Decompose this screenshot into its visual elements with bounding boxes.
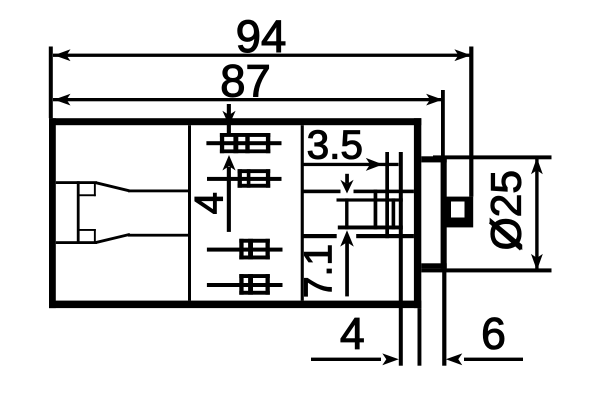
flange bottom edge [421, 263, 446, 268]
pin body [445, 197, 474, 228]
dim dia25 top arrow [531, 158, 543, 175]
body outline right edge [414, 118, 421, 308]
dim 87 right extension line [441, 90, 445, 156]
right detail vertical VA [385, 152, 389, 238]
flange top edge [421, 156, 446, 162]
dim 4 vertical upper tail [227, 104, 231, 133]
dim 94 line [53, 54, 471, 57]
right detail H-bot [338, 226, 403, 230]
label 94 [238, 20, 259, 52]
dim 94 left extension line [49, 47, 53, 119]
label 87 [222, 65, 243, 97]
bottom extension line at body right edge [418, 308, 422, 366]
body outline left edge [49, 118, 56, 308]
label dia25 rotated [490, 219, 522, 249]
dim 7.1 up arrow halo [337, 234, 356, 239]
dim 3.5 arrow [366, 158, 383, 171]
dim 7.1 down arrow head [340, 180, 353, 194]
fork notch top bottom edge [78, 194, 96, 196]
terminal row 4 box [239, 274, 269, 295]
terminal row 1 box [220, 133, 270, 153]
flange right edge [441, 156, 447, 268]
dim dia25 bottom extension line [421, 268, 551, 272]
right detail H-top right segment [353, 190, 414, 194]
right detail I-beam vertical [345, 198, 348, 229]
dim 87 right arrow [426, 94, 443, 106]
dim 94 right arrow [454, 49, 471, 61]
dim 4 bottom arrow [382, 353, 399, 365]
pin hole [451, 202, 465, 218]
right detail H-bot2 left segment [302, 234, 337, 238]
terminal row 2 box [238, 169, 271, 188]
terminal row 2 lead [207, 177, 282, 181]
dim 4 vertical lower tail [227, 167, 231, 232]
dim 87 line [53, 98, 443, 101]
right detail H-bot2 right segment [356, 234, 414, 238]
dim 7.1 up arrow tail [345, 242, 349, 296]
label 7.1 rotated [304, 278, 331, 296]
terminal row 3 lead [207, 248, 283, 252]
fork notch bottom top edge [78, 229, 96, 231]
dim 94 left arrow [54, 49, 71, 61]
fork taper top [96, 181, 131, 192]
fork vertical bar [77, 181, 80, 244]
dim dia25 line [535, 159, 538, 269]
dim dia25 bottom arrow [531, 254, 543, 271]
label 3.5 [308, 130, 327, 159]
right detail vertical Va [374, 190, 378, 230]
fork bottom rail [56, 241, 97, 244]
terminal row 3 box [239, 239, 269, 260]
right detail vertical VB long [399, 152, 403, 366]
dim 6 bottom arrow [446, 353, 463, 365]
fork notch bottom right edge [94, 229, 96, 243]
dia25 slash extension [490, 222, 521, 249]
dim 4 bottom line [311, 358, 381, 361]
fork top rail [56, 181, 97, 184]
fork neck top line [128, 190, 190, 193]
body outline bottom edge [49, 301, 421, 309]
label 4 rotated [195, 193, 223, 213]
fork neck bottom line [128, 234, 190, 237]
right detail vertical Vc [392, 198, 396, 229]
dim 7.1 down arrow tail [345, 174, 349, 184]
dim 6 bottom line [464, 358, 523, 361]
dim 87 left arrow [54, 94, 71, 106]
dim 7.1 down arrow halo [341, 188, 354, 195]
divider line 1 [188, 125, 191, 300]
fork taper bottom [96, 233, 131, 244]
label 6 bottom [483, 318, 504, 350]
dim 4 vertical down arrow [222, 111, 235, 126]
divider line 2 [301, 125, 304, 300]
dim 7.1 up arrow head [340, 230, 354, 246]
terminal row 1 lead [206, 141, 281, 145]
dim 3.5 line [302, 163, 399, 166]
right detail H-mid [337, 198, 403, 201]
dim 4 vertical up arrow [222, 155, 235, 171]
fork notch top right edge [94, 182, 96, 196]
dim 94 right extension line [469, 47, 473, 197]
right detail H-top left segment [302, 190, 341, 194]
bottom extension line at flange right edge [442, 268, 446, 365]
dim dia25 top extension line [433, 155, 552, 159]
label 4 bottom [341, 318, 363, 349]
body outline top edge [49, 118, 421, 125]
terminal row 4 lead [207, 283, 283, 287]
